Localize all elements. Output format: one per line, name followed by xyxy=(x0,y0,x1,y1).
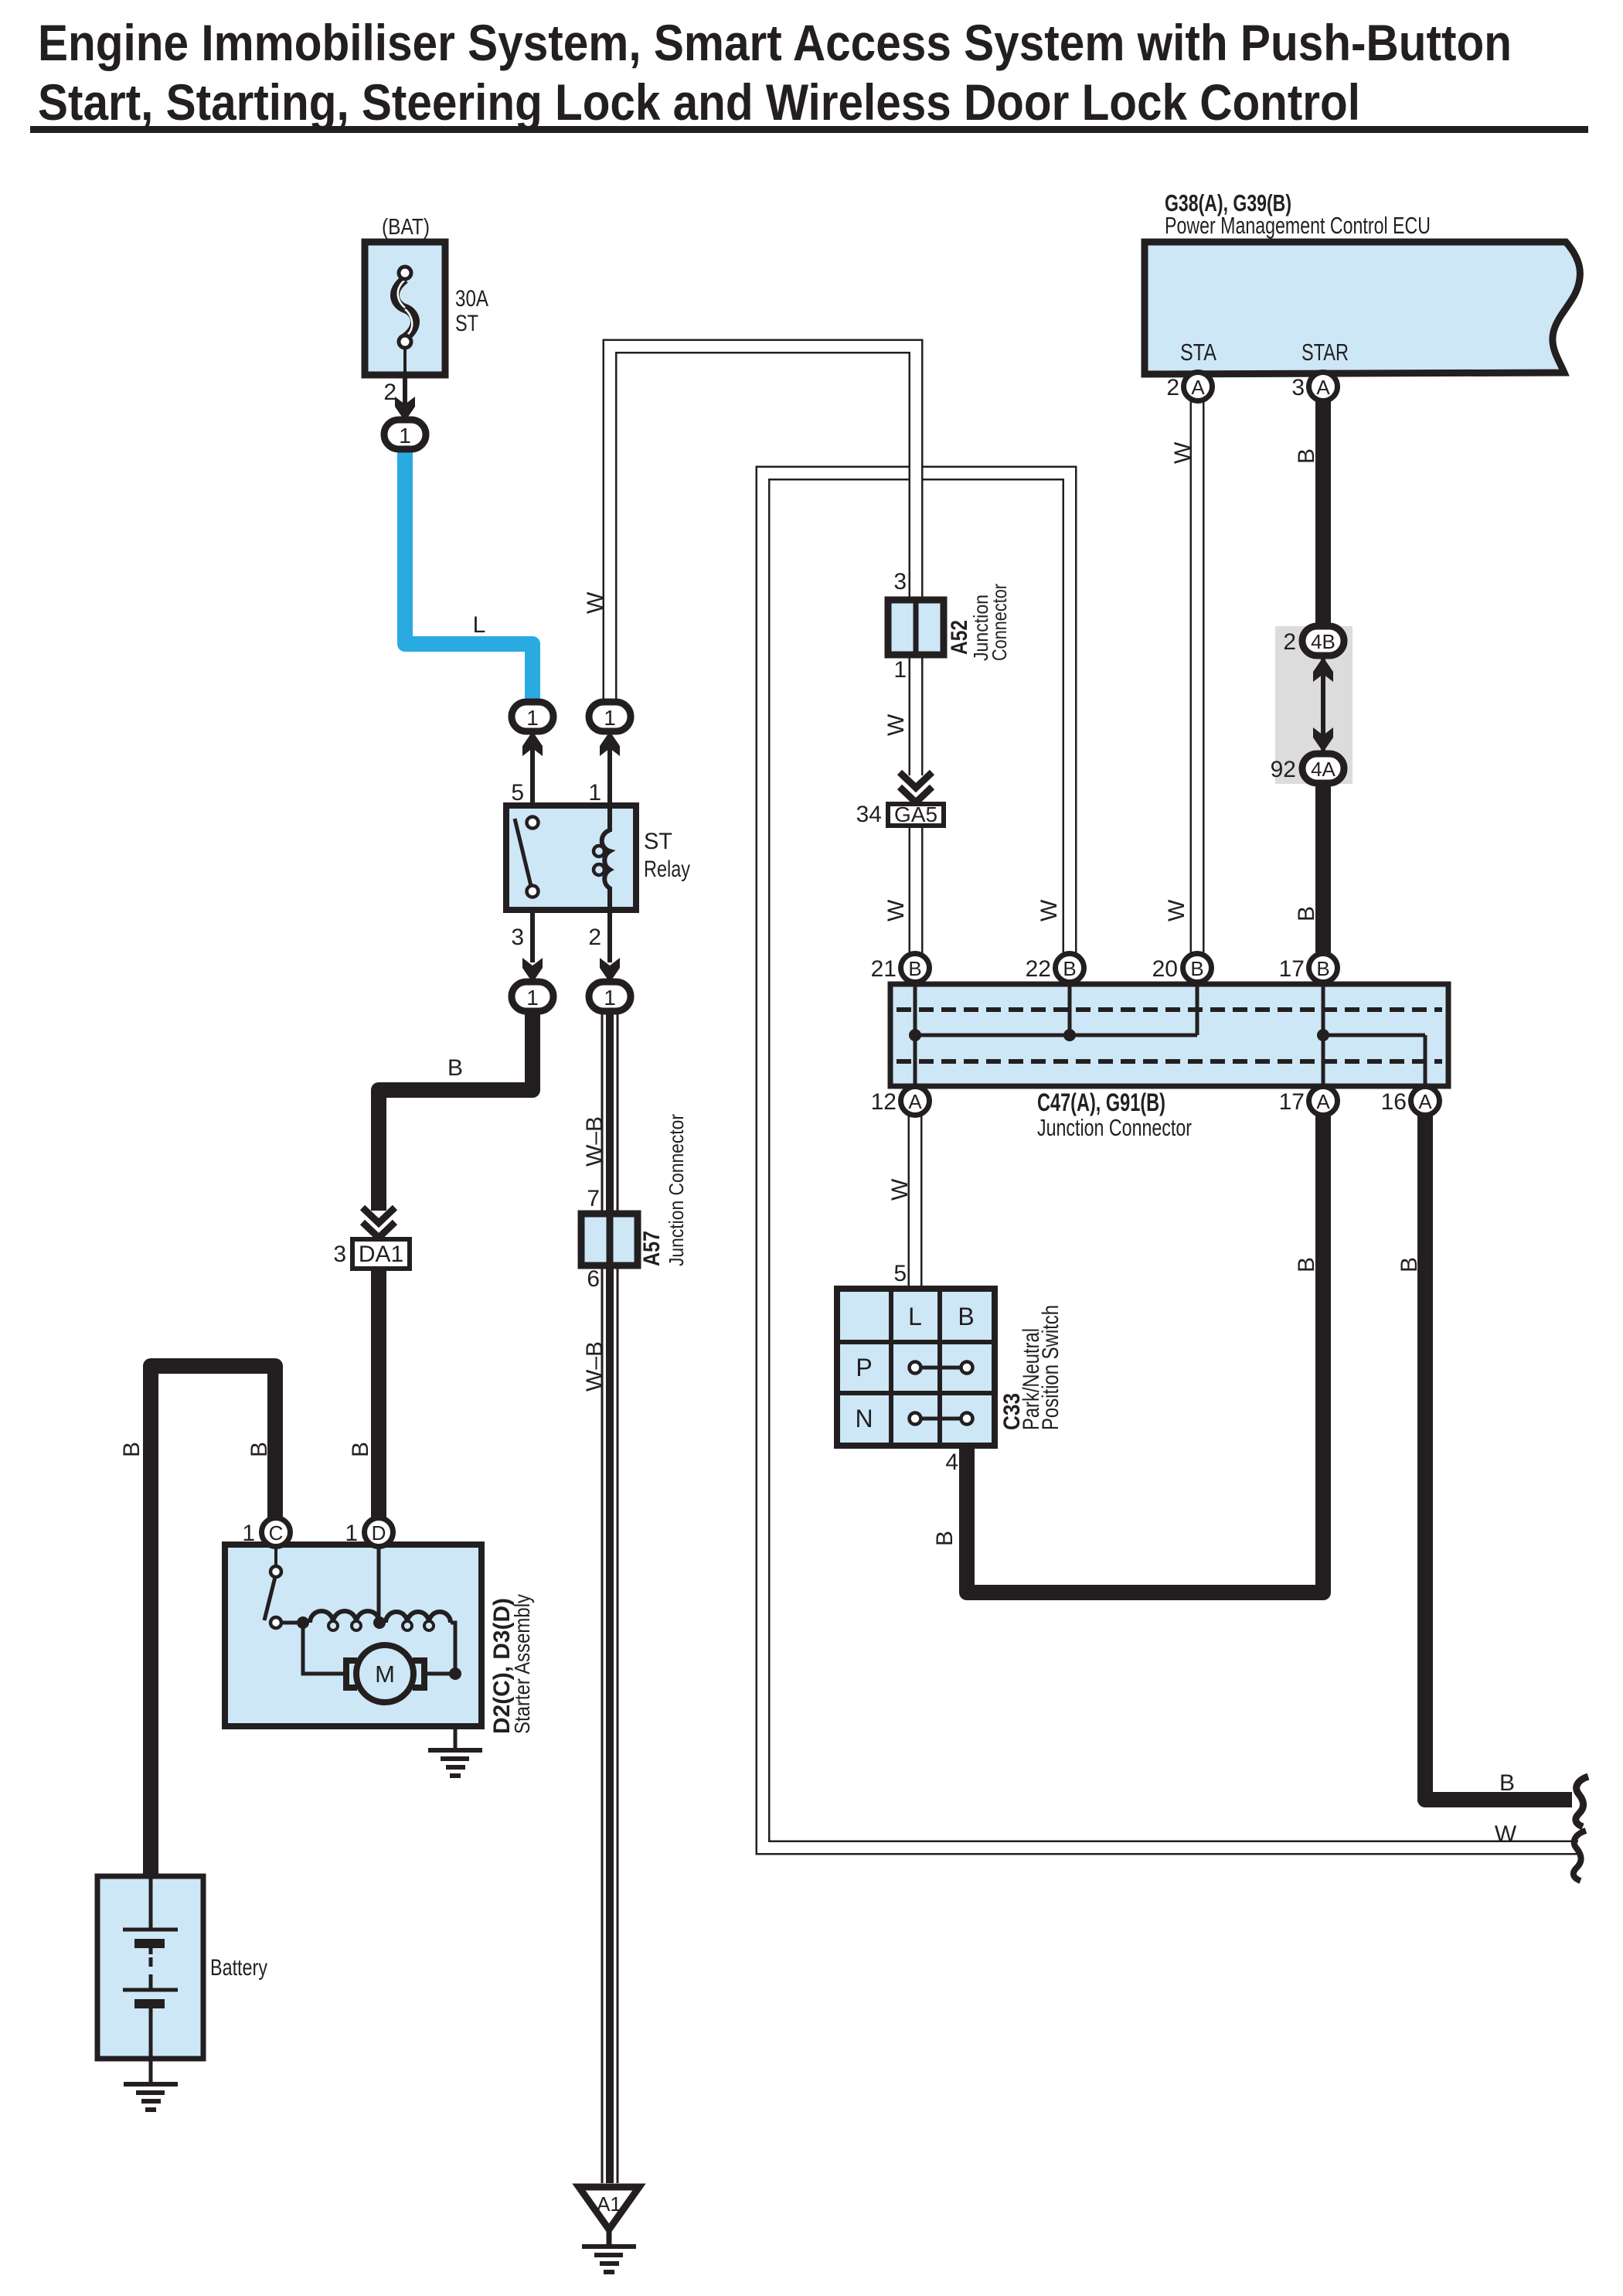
svg-text:Connector: Connector xyxy=(988,584,1011,661)
svg-text:12: 12 xyxy=(871,1089,897,1115)
svg-text:L: L xyxy=(473,612,486,638)
svg-text:B: B xyxy=(1063,957,1076,980)
svg-text:B: B xyxy=(119,1442,145,1457)
svg-text:5: 5 xyxy=(893,1261,907,1286)
svg-text:Junction Connector: Junction Connector xyxy=(665,1114,688,1266)
svg-text:P: P xyxy=(856,1354,872,1381)
svg-text:B: B xyxy=(348,1442,373,1457)
svg-text:A: A xyxy=(1316,1090,1330,1113)
svg-text:DA1: DA1 xyxy=(359,1242,403,1267)
svg-text:2: 2 xyxy=(588,925,601,950)
svg-text:1: 1 xyxy=(604,986,616,1010)
svg-text:ST: ST xyxy=(644,829,672,854)
svg-text:Relay: Relay xyxy=(644,857,690,882)
svg-text:GA5: GA5 xyxy=(894,802,937,826)
svg-text:1: 1 xyxy=(242,1521,255,1546)
svg-text:2: 2 xyxy=(1283,629,1296,655)
svg-text:17: 17 xyxy=(1279,1089,1305,1115)
svg-text:W–B: W–B xyxy=(582,1116,607,1167)
svg-text:B: B xyxy=(1294,906,1319,921)
svg-text:1: 1 xyxy=(526,986,539,1010)
svg-text:B: B xyxy=(1316,957,1329,980)
svg-text:21: 21 xyxy=(871,956,897,982)
svg-text:B: B xyxy=(1397,1257,1422,1272)
svg-text:D: D xyxy=(372,1521,386,1545)
svg-text:A1: A1 xyxy=(597,2192,621,2216)
svg-text:B: B xyxy=(247,1442,272,1457)
svg-text:W: W xyxy=(883,714,909,736)
svg-text:1: 1 xyxy=(604,706,616,730)
svg-text:A: A xyxy=(1418,1090,1432,1113)
svg-text:3: 3 xyxy=(1291,375,1305,400)
svg-text:B: B xyxy=(908,957,921,980)
svg-text:A: A xyxy=(1191,376,1205,399)
svg-text:Junction Connector: Junction Connector xyxy=(1037,1114,1192,1141)
svg-text:N: N xyxy=(855,1405,873,1432)
svg-text:W: W xyxy=(1170,441,1196,464)
svg-text:W: W xyxy=(887,1178,913,1201)
svg-text:5: 5 xyxy=(511,780,524,806)
svg-text:A: A xyxy=(908,1090,922,1113)
svg-text:1: 1 xyxy=(399,424,411,448)
svg-text:Power Management Control ECU: Power Management Control ECU xyxy=(1165,212,1431,239)
svg-text:B: B xyxy=(1499,1770,1515,1796)
svg-text:34: 34 xyxy=(856,802,882,827)
svg-text:L: L xyxy=(908,1303,922,1330)
svg-text:W: W xyxy=(1036,899,1062,921)
svg-text:6: 6 xyxy=(587,1266,600,1292)
svg-text:STA: STA xyxy=(1180,339,1216,366)
svg-text:STAR: STAR xyxy=(1301,339,1349,366)
svg-text:W: W xyxy=(883,899,909,921)
svg-text:W: W xyxy=(583,591,608,614)
svg-text:16: 16 xyxy=(1381,1089,1407,1115)
svg-text:1: 1 xyxy=(893,657,907,683)
svg-text:3: 3 xyxy=(333,1242,346,1267)
svg-text:1: 1 xyxy=(588,780,601,806)
svg-text:B: B xyxy=(447,1055,463,1081)
svg-text:(BAT): (BAT) xyxy=(382,215,430,240)
svg-text:7: 7 xyxy=(587,1186,600,1211)
svg-text:B: B xyxy=(958,1303,974,1330)
svg-text:A: A xyxy=(1316,376,1330,399)
svg-text:Start, Starting, Steering Lock: Start, Starting, Steering Lock and Wirel… xyxy=(38,73,1360,131)
svg-text:C: C xyxy=(269,1521,284,1545)
svg-text:W: W xyxy=(1164,899,1189,921)
svg-text:92: 92 xyxy=(1271,757,1296,782)
svg-text:Battery: Battery xyxy=(210,1955,267,1981)
svg-text:4A: 4A xyxy=(1311,758,1335,781)
svg-text:2: 2 xyxy=(1166,375,1179,400)
svg-text:3: 3 xyxy=(893,569,907,594)
svg-text:22: 22 xyxy=(1026,956,1051,982)
svg-text:C47(A), G91(B): C47(A), G91(B) xyxy=(1037,1088,1165,1116)
svg-text:Starter Assembly: Starter Assembly xyxy=(510,1594,534,1734)
svg-text:B: B xyxy=(1294,1257,1319,1272)
svg-text:A57: A57 xyxy=(639,1231,665,1266)
svg-text:3: 3 xyxy=(511,925,524,950)
svg-text:B: B xyxy=(1294,448,1319,464)
svg-text:1: 1 xyxy=(345,1521,358,1546)
svg-text:2: 2 xyxy=(383,380,396,405)
svg-text:B: B xyxy=(1190,957,1203,980)
svg-text:17: 17 xyxy=(1279,956,1305,982)
svg-text:W–B: W–B xyxy=(582,1341,607,1392)
svg-text:30A: 30A xyxy=(455,286,488,312)
svg-text:20: 20 xyxy=(1152,956,1178,982)
svg-text:Position Switch: Position Switch xyxy=(1038,1305,1063,1430)
svg-text:1: 1 xyxy=(526,706,539,730)
svg-text:W: W xyxy=(1495,1821,1517,1847)
svg-text:4: 4 xyxy=(945,1449,958,1475)
svg-text:B: B xyxy=(932,1531,958,1546)
svg-text:Engine Immobiliser System, Sma: Engine Immobiliser System, Smart Access … xyxy=(38,14,1512,71)
svg-text:M: M xyxy=(375,1661,395,1688)
svg-text:ST: ST xyxy=(455,311,478,336)
svg-text:4B: 4B xyxy=(1311,630,1335,653)
